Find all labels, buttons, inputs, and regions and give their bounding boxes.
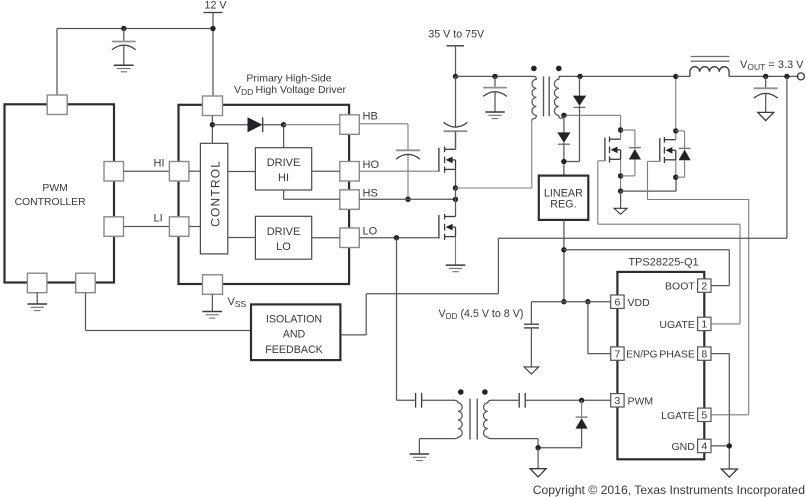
svg-text:4: 4	[701, 441, 707, 453]
wire linear reg output	[563, 220, 565, 302]
wire LI	[124, 226, 170, 228]
svg-text:DRIVE: DRIVE	[267, 157, 301, 169]
pin PWM LI out	[104, 217, 124, 237]
transistor Q1 high-side FET	[439, 131, 456, 188]
svg-text:LO: LO	[363, 226, 378, 238]
transistor Q2 low-side FET	[439, 188, 456, 265]
node T2 primary phase dot	[458, 389, 464, 395]
wire LO branch down to gate transformer	[397, 238, 415, 401]
pin driver HI in	[169, 162, 189, 182]
wire to HB pin	[284, 124, 340, 126]
node PHASE-GND junction	[727, 443, 732, 448]
svg-text:35 V to 75V: 35 V to 75V	[428, 29, 485, 41]
svg-text:LGATE: LGATE	[661, 410, 695, 422]
svg-text:PWM: PWM	[628, 395, 654, 407]
transistor Q3 sync FET A	[605, 115, 621, 191]
diode D5 body diode B	[676, 131, 691, 177]
capacitor C1 (12V bypass)	[112, 29, 136, 66]
wire drive hi to HO pin	[312, 170, 340, 172]
svg-text:VSS: VSS	[228, 296, 247, 309]
node linreg out junction	[561, 247, 566, 252]
svg-text:1: 1	[701, 319, 707, 331]
ground (earth) below PWM controller	[27, 293, 47, 311]
wire 12V rail to PWM controller	[57, 29, 213, 96]
pin PWM top (VCC)	[47, 95, 67, 115]
node output cap junction	[763, 74, 768, 79]
svg-text:GND: GND	[671, 441, 695, 453]
svg-text:7: 7	[614, 348, 620, 360]
wire T2 secondary return	[538, 439, 582, 448]
wire HB to bootstrap cap	[359, 124, 408, 150]
wire HI pin to control	[189, 170, 201, 172]
node Q4 drain	[673, 128, 678, 133]
node switch node	[453, 185, 458, 190]
wire input rail	[456, 75, 535, 77]
driver U2 Primary High-Side High Voltage Driver	[179, 73, 350, 285]
svg-text:Primary High-Side: Primary High-Side	[246, 73, 331, 85]
transformer T1 core	[544, 76, 550, 116]
pin driver VSS	[203, 275, 223, 295]
ground (earth) T2 primary	[410, 454, 430, 461]
PWM controller U1	[5, 104, 115, 282]
transistor Q4 sync FET B	[660, 76, 676, 177]
svg-text:VDD (4.5 V to 8 V): VDD (4.5 V to 8 V)	[439, 308, 524, 321]
pin 6 VDD	[611, 295, 650, 309]
wire LI pin to control	[189, 226, 201, 228]
ground (earth) below VSS	[202, 294, 222, 318]
wire LO to low-side gate	[359, 237, 440, 239]
node diode cathode junction	[281, 122, 286, 127]
node HS tie	[453, 197, 458, 202]
svg-text:VDD: VDD	[628, 297, 651, 309]
svg-text:2: 2	[701, 280, 707, 292]
svg-text:UGATE: UGATE	[659, 319, 694, 331]
wire PHASE down	[711, 354, 729, 469]
node rectifier A junction	[577, 74, 582, 79]
svg-text:LI: LI	[154, 213, 163, 225]
node Q3 source	[618, 173, 623, 178]
svg-text:REG.: REG.	[550, 199, 576, 211]
svg-text:HI: HI	[154, 158, 165, 170]
pin driver LI in	[169, 217, 189, 237]
node secondary bottom junction	[561, 113, 566, 118]
pin driver VDD	[203, 96, 223, 116]
wire to drive hi top	[283, 125, 285, 148]
node bootstrap-HS junction	[405, 197, 410, 202]
supply 35V-75V	[428, 29, 485, 77]
node PWM line junction	[579, 398, 584, 403]
svg-text:FEEDBACK: FEEDBACK	[265, 344, 323, 356]
wire Q4 gate to LGATE riser	[648, 161, 749, 414]
transformer T2 primary winding	[419, 400, 462, 454]
wire control to drive lo	[228, 237, 256, 239]
linear regulator U3	[539, 176, 589, 220]
wire drive lo to LO pin	[312, 237, 340, 239]
node sources tie junction	[618, 188, 623, 193]
isolation and feedback block U4	[251, 304, 340, 360]
pin driver HB	[340, 115, 360, 135]
wire feedback to isolation box	[86, 293, 252, 331]
ground (earth) below C3	[485, 112, 505, 119]
node input rail junction	[453, 74, 458, 79]
wire secondary bottom line	[564, 114, 621, 116]
pin 1 UGATE	[659, 317, 711, 331]
ground (earth) below Q2	[446, 265, 466, 272]
wire EN/PG branch	[588, 302, 611, 354]
capacitor C3 input bulk	[483, 76, 507, 112]
diode D1 bootstrap feed	[212, 117, 283, 132]
ground (triangle) T2 secondary	[530, 448, 546, 477]
wire source tie	[621, 177, 676, 191]
svg-text:AND: AND	[283, 329, 306, 341]
svg-text:EN/PG: EN/PG	[626, 350, 657, 361]
node output rail junction at Q4	[673, 74, 678, 79]
terminal VOUT	[797, 73, 804, 80]
svg-text:Copyright © 2016, Texas Instru: Copyright © 2016, Texas Instruments Inco…	[533, 483, 805, 497]
capacitor C5 output	[754, 76, 778, 112]
pin 5 LGATE	[661, 408, 711, 422]
svg-text:LINEAR: LINEAR	[544, 187, 583, 199]
wire GND	[711, 445, 729, 447]
svg-text:LO: LO	[276, 241, 291, 253]
pin driver LO	[340, 228, 360, 248]
node Q3 drain	[618, 127, 623, 132]
svg-text:CONTROL: CONTROL	[208, 160, 222, 227]
ground (triangle) TPS GND	[721, 469, 737, 477]
svg-text:8: 8	[701, 348, 707, 360]
node feedback junction	[784, 74, 789, 79]
capacitor C7 coupling primary	[416, 393, 455, 408]
node cap junction	[121, 26, 126, 31]
svg-text:BOOT: BOOT	[665, 281, 695, 293]
wire HO to high-side gate	[359, 170, 440, 172]
pin PWM gnd	[27, 273, 47, 293]
node T1 secondary phase dot	[556, 66, 562, 72]
pin 3 PWM	[611, 394, 653, 408]
inductor L1 output	[676, 57, 799, 77]
svg-text:ISOLATION: ISOLATION	[266, 313, 322, 325]
svg-text:HS: HS	[363, 188, 378, 200]
pin PWM HI out	[104, 162, 124, 182]
ground (triangle) sync FETs	[614, 191, 627, 214]
pin 2 BOOT	[665, 279, 711, 293]
supply 12V	[204, 0, 228, 96]
wire drive hi bottom to HS pin	[284, 190, 340, 199]
diode D4 body diode A	[621, 130, 641, 176]
diode D2 rectifier A	[564, 76, 586, 161]
node T1 primary phase dot	[531, 66, 537, 72]
wire HI	[124, 170, 170, 172]
control block	[200, 143, 227, 254]
svg-text:12 V: 12 V	[205, 0, 228, 12]
capacitor C4 DC blocking	[444, 76, 468, 149]
wire control to drive hi	[228, 171, 256, 173]
wire VDD line	[531, 301, 610, 303]
IC U5 TPS28225-Q1	[617, 257, 704, 460]
svg-text:TPS28225-Q1: TPS28225-Q1	[628, 257, 698, 269]
node rectifier junction	[561, 159, 566, 164]
node VDD internal junction	[210, 122, 215, 127]
svg-text:PHASE: PHASE	[659, 349, 695, 361]
transformer T1 primary winding	[532, 76, 537, 188]
node input cap junction	[492, 74, 497, 79]
capacitor C8 coupling secondary	[519, 393, 610, 408]
capacitor C6 VDD bypass	[524, 302, 539, 367]
pin 4 GND	[671, 439, 711, 453]
svg-text:HB: HB	[363, 111, 378, 123]
pin 8 PHASE	[659, 347, 711, 361]
pin PWM fb in	[76, 273, 96, 293]
diode D6 clamp	[576, 400, 588, 447]
transformer T1 secondary winding	[554, 76, 564, 118]
wire switch node to transformer	[456, 187, 532, 189]
capacitor C2 bootstrap HB-HS	[396, 150, 420, 199]
wire LGATE to riser	[711, 414, 749, 416]
svg-text:High Voltage Driver: High Voltage Driver	[256, 84, 347, 96]
wire BOOT feed	[564, 250, 729, 286]
wire Q3 gate to UGATE riser	[598, 161, 740, 324]
svg-text:3: 3	[614, 395, 620, 407]
pin driver HO	[340, 162, 360, 182]
pin driver HS	[340, 190, 360, 210]
svg-text:PWM: PWM	[42, 183, 67, 194]
drive lo block	[255, 216, 311, 259]
ground (triangle) below C6	[524, 367, 539, 374]
diode D3 rectifier B	[557, 115, 570, 175]
drive hi block	[255, 148, 311, 190]
svg-text:6: 6	[614, 296, 620, 308]
node ENPG branch junction	[585, 299, 590, 304]
node 12V junction	[210, 26, 215, 31]
svg-text:VDD: VDD	[234, 84, 253, 97]
wire secondary top rail	[559, 75, 676, 77]
ground (triangle) below C5	[758, 112, 774, 120]
wire feedback sense path	[340, 76, 787, 335]
node LO branch junction	[394, 235, 399, 240]
transformer T2 secondary winding	[483, 400, 538, 438]
node T2 secondary phase dot	[482, 389, 488, 395]
svg-text:VOUT = 3.3 V: VOUT = 3.3 V	[740, 59, 804, 72]
node VDD line junction	[561, 299, 566, 304]
wire HS line	[359, 198, 455, 200]
svg-text:5: 5	[701, 410, 707, 422]
wire VDD pin to control	[211, 116, 213, 144]
transformer T2 core	[470, 399, 477, 440]
ground (earth) below C1	[114, 65, 134, 72]
node secondary return junction	[535, 445, 540, 450]
svg-text:HI: HI	[278, 172, 289, 184]
node Q4 source	[673, 175, 678, 180]
svg-text:HO: HO	[363, 159, 380, 171]
pin 7 EN/PG	[611, 347, 658, 361]
svg-text:CONTROLLER: CONTROLLER	[15, 197, 87, 208]
wire UGATE to riser	[711, 323, 740, 325]
svg-text:DRIVE: DRIVE	[267, 226, 301, 238]
